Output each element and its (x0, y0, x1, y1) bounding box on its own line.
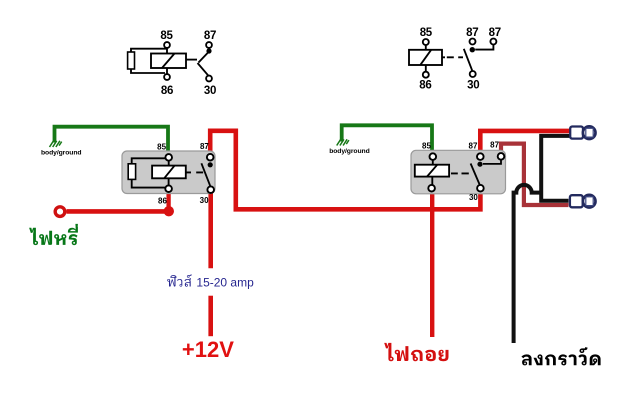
net label: reverse light (Thai, red) (384, 343, 448, 361)
coil stem from pin 85 (168, 161, 170, 166)
contact lead from dot (199, 52, 210, 63)
net label: fuse note (Thai) (167, 274, 254, 289)
pin 30 terminal circle (470, 71, 476, 77)
svg-text:body/ground: body/ground (41, 149, 81, 156)
actuator link line (186, 59, 197, 61)
svg-text:+12V: +12V (182, 337, 234, 362)
pin 87 terminal circle (206, 42, 212, 48)
svg-text:85: 85 (422, 141, 431, 150)
coil box L1 (151, 54, 186, 69)
pin 30 circle (477, 185, 484, 192)
net label: to ground (Thai, black) (522, 347, 601, 365)
bulb connector top: crimp (570, 127, 583, 139)
pin 85 circle (165, 154, 172, 161)
pin 85 terminal circle (164, 42, 170, 48)
resistor loop wire (parallel resistor branch) (131, 49, 167, 73)
resistor R (parallel) (128, 164, 135, 180)
coil stem to pin 86 (431, 177, 433, 186)
pin 87 terminal circle (NO) (470, 39, 476, 45)
pin 87 second circle (498, 153, 505, 160)
coil stem from pin 85 (425, 45, 427, 50)
pin 87 circle (477, 153, 484, 160)
svg-text:body/ground: body/ground (329, 148, 369, 155)
bulb connector bottom: ring (583, 195, 596, 208)
coil diagonal (427, 165, 437, 177)
link wire 87-87 (483, 160, 501, 164)
pin 85 circle (430, 153, 437, 160)
pin 86 circle (165, 185, 172, 192)
wire: red stub K1 pin 86 down (166, 192, 170, 211)
bulb connector bottom: contact square (586, 197, 593, 206)
pin 87 circle (207, 154, 214, 161)
relay symbol K1 schematic (128, 30, 217, 97)
bulb connector top: ring (583, 126, 596, 139)
actuator dashed link (442, 56, 463, 58)
net label: parking light (Thai, green) (29, 224, 78, 245)
wire: black ground branch with hop over red (514, 185, 542, 343)
actuator link (186, 171, 203, 173)
switch arm (201, 163, 210, 186)
pin 86 terminal circle (164, 74, 170, 80)
wire: green ground wire of relay 2 (342, 125, 432, 155)
ground symbol (hatch) right (337, 139, 349, 145)
wire: red parking light feed to junction (67, 209, 170, 214)
svg-text:86: 86 (419, 79, 431, 91)
wire: dark red K2 second 87 to bottom bulb connector (501, 144, 569, 205)
pin 30 terminal circle (206, 76, 212, 82)
junction node dot (164, 206, 174, 216)
svg-text:87: 87 (204, 30, 216, 42)
wire: green ground wire of relay 1 (55, 127, 169, 156)
coil box (415, 165, 449, 177)
switch arm (471, 164, 480, 186)
svg-text:86: 86 (161, 85, 173, 97)
coil box L2 (409, 50, 442, 65)
pin 85 terminal circle (423, 39, 429, 45)
fixed contact dot (477, 162, 482, 167)
svg-text:87: 87 (200, 142, 209, 151)
pin 86 terminal circle (423, 72, 429, 78)
pin 87 second terminal circle (490, 39, 496, 45)
svg-text:86: 86 (158, 197, 167, 206)
resistor R (parallel with coil) (128, 52, 135, 69)
svg-text:87: 87 (489, 27, 501, 39)
switch arm from pin 30 (198, 63, 209, 76)
svg-text:87: 87 (469, 141, 478, 150)
link wire 87-87 (475, 45, 493, 50)
relay K1 body (gray box) (122, 151, 215, 194)
coil box (152, 166, 186, 179)
coil stem to pin 86 (168, 178, 170, 185)
switch arm (464, 49, 472, 71)
pin 86 circle (428, 185, 435, 192)
coil stem wire from pin 85 (166, 48, 168, 54)
coil stem from pin 85 (432, 160, 434, 165)
ground symbol (hatch) left (50, 141, 62, 147)
svg-text:87: 87 (466, 27, 478, 39)
coil stem wire to pin 86 (166, 68, 168, 74)
fixed contact dot (87) (206, 48, 211, 53)
bulb connector top: contact square (586, 128, 593, 137)
wire: red K2 pin 87 to top bulb connector (480, 131, 569, 155)
svg-text:30: 30 (204, 85, 216, 97)
svg-text:30: 30 (469, 193, 478, 202)
svg-text:30: 30 (467, 80, 479, 92)
fixed contact dot (470, 47, 475, 52)
wire: red from K1 pin 30 down to fuse (208, 193, 213, 268)
relay symbol K2 schematic (409, 27, 501, 92)
svg-text:85: 85 (160, 30, 173, 42)
svg-text:15-20 amp: 15-20 amp (196, 276, 254, 290)
svg-text:30: 30 (200, 196, 209, 205)
wire: red K2 pin 86 down to reverse-light label (430, 191, 434, 337)
relay K2 body (gray box) (411, 150, 506, 194)
pin 30 circle (207, 186, 214, 193)
fixed contact dot (208, 162, 213, 167)
coil stem to pin 86 (425, 65, 427, 72)
coil diagonal (421, 50, 432, 65)
svg-text:87: 87 (490, 141, 499, 150)
svg-text:85: 85 (157, 143, 166, 152)
terminal ring: parking-light feed (55, 207, 65, 217)
wire: red from K1 pin 87 up-over-down to K2 pin 30 (long feed) (210, 131, 480, 210)
wire: black from top connector down and to bottom connector (541, 136, 569, 201)
bulb connector bottom: crimp (570, 195, 583, 207)
wire: red from fuse down to +12V (208, 296, 213, 337)
resistor loop wire (132, 158, 166, 187)
actuator dashed link (451, 172, 469, 174)
svg-text:85: 85 (420, 27, 433, 39)
coil diagonal (162, 54, 175, 69)
coil diagonal (164, 166, 174, 179)
